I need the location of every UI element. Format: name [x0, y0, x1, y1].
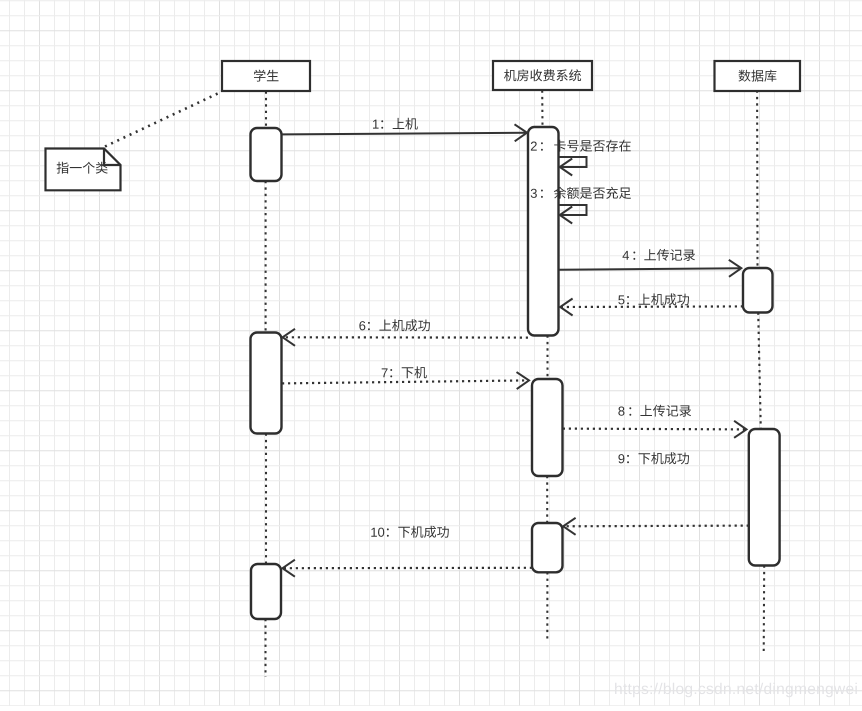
message 8 上传记录 (dotted arrow)	[563, 421, 747, 438]
message 4 上传记录 (solid arrow)	[559, 260, 742, 277]
label 4：上传记录	[623, 249, 696, 261]
activation 机房收费系统 #2	[532, 379, 563, 476]
activation 学生 #3	[251, 564, 281, 619]
label 9：下机成功	[618, 452, 689, 464]
label 8：上传记录	[618, 405, 691, 417]
activation 学生 #1	[251, 128, 282, 181]
message 7 下机 (dotted arrow)	[282, 372, 529, 389]
activation 学生 #2	[251, 333, 282, 434]
activation 数据库 #2	[749, 429, 780, 566]
activation 机房收费系统 #3	[532, 523, 563, 572]
lifeline 学生	[264, 92, 267, 678]
message 9 下机成功 (dotted return)	[563, 518, 749, 535]
message 5 上机成功 (dotted return)	[560, 299, 743, 316]
message 6 上机成功 (dotted return)	[283, 329, 528, 346]
label 6：上机成功	[359, 319, 430, 331]
note 指一个类	[46, 149, 121, 191]
message 10 下机成功 (dotted return)	[283, 560, 533, 577]
object box 机房收费系统	[493, 61, 592, 90]
activation 数据库 #1	[743, 268, 773, 313]
message 1 上机 (solid arrow)	[282, 124, 527, 141]
label 5：上机成功	[618, 293, 689, 305]
label 3：余额是否充足	[531, 187, 631, 199]
actor box 学生	[222, 61, 310, 91]
label 2：卡号是否存在	[531, 140, 631, 152]
label 10：下机成功	[371, 526, 449, 538]
lifeline 数据库	[757, 91, 764, 654]
label 1：上机	[373, 118, 418, 130]
watermark csdn url	[615, 683, 857, 698]
message 3 self loop	[559, 205, 587, 224]
object box 数据库	[715, 61, 801, 91]
activation 机房收费系统 #1	[528, 127, 559, 336]
note connector dotted	[105, 92, 221, 147]
label 7：下机	[382, 366, 427, 378]
message 2 self loop	[559, 157, 587, 176]
lifeline 机房收费系统	[542, 91, 547, 640]
